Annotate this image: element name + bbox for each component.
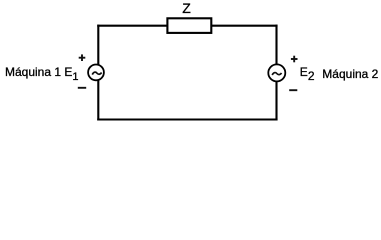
wire right vertical (E2 branch) <box>275 25 277 121</box>
wire top (node between E1 and Z, node between Z and E2) <box>97 25 277 27</box>
AC source E1 circle <box>88 65 104 81</box>
plus sign of E2 <box>291 56 298 63</box>
AC source E2 circle <box>268 64 285 81</box>
AC source E1 tilde <box>92 72 101 74</box>
AC source E2 tilde <box>272 73 281 75</box>
minus sign of E2 <box>289 89 297 91</box>
label Máquina 2 <box>322 68 378 80</box>
minus sign of E1 <box>78 87 86 89</box>
label E2 of source <box>300 66 315 78</box>
wire bottom (return path) <box>97 118 277 120</box>
impedance Z box <box>167 18 211 33</box>
plus sign of E1 <box>79 54 86 61</box>
label Z of impedance box <box>182 1 191 15</box>
label Máquina 1 E1 <box>5 66 79 79</box>
wire left vertical (E1 branch) <box>97 25 99 121</box>
